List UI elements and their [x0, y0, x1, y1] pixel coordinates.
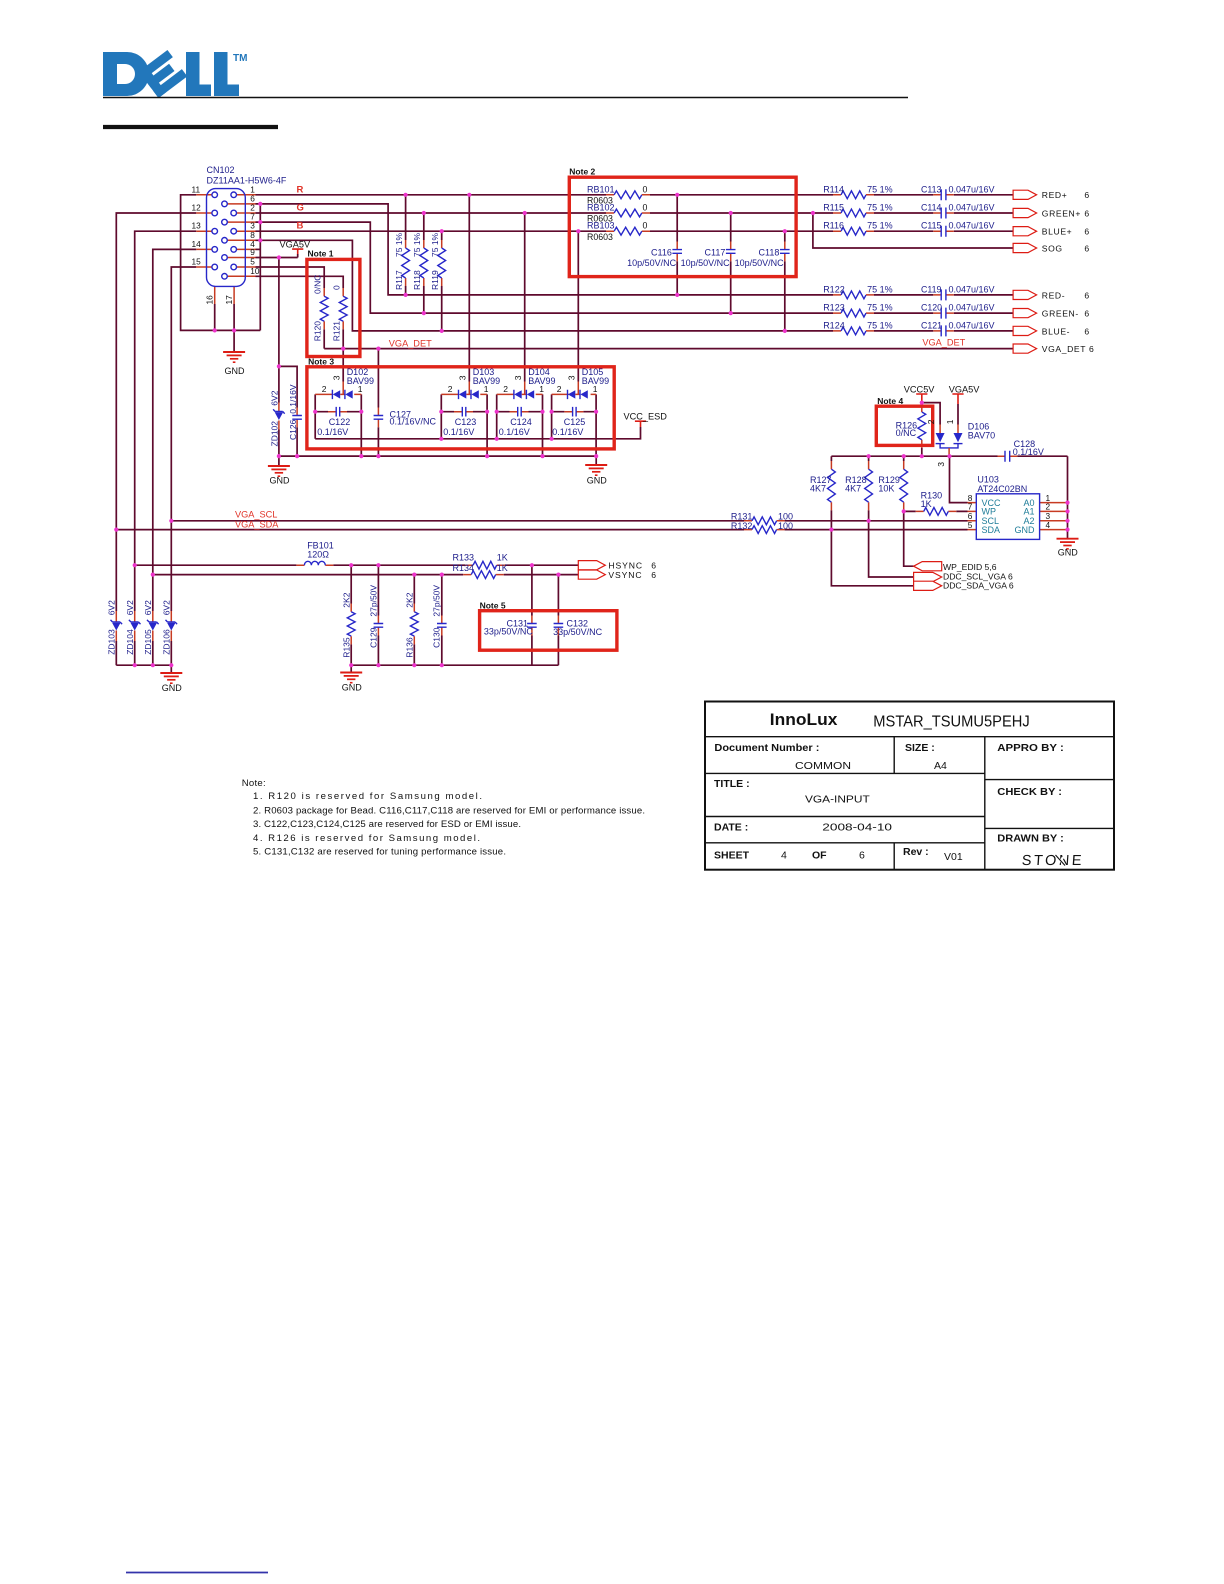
- svg-text:C119: C119: [921, 284, 941, 294]
- svg-text:COMMON: COMMON: [795, 760, 851, 772]
- resistor R127: [828, 469, 836, 502]
- svg-text:1K: 1K: [497, 553, 508, 563]
- junctions on HSYNC net: [133, 563, 534, 567]
- wire net VGA_SCL: [171, 520, 967, 522]
- svg-text:3: 3: [513, 375, 523, 380]
- resistor R114: [841, 191, 866, 199]
- zener ZD106: [166, 620, 178, 631]
- svg-text:10K: 10K: [878, 483, 894, 493]
- port DDC_SCL_VGA: [914, 572, 942, 581]
- Dell logo: [103, 50, 247, 98]
- junctions on VCC_ESD rail: [439, 437, 554, 441]
- svg-text:R132: R132: [731, 521, 753, 531]
- zener ZD102: [273, 409, 285, 420]
- svg-text:0: 0: [643, 203, 648, 213]
- resistor R131: [752, 517, 777, 525]
- port GREEN-: [1013, 309, 1037, 318]
- junctions on RED- GREEN- BLUE- return nets: [404, 293, 787, 333]
- svg-text:0.047u/16V: 0.047u/16V: [949, 303, 995, 313]
- wire D104 cluster: [497, 394, 543, 456]
- resistor R133: [473, 561, 497, 569]
- svg-text:75 1%: 75 1%: [867, 221, 893, 231]
- svg-text:R118: R118: [412, 270, 422, 290]
- svg-text:R120: R120: [313, 321, 323, 342]
- svg-text:3: 3: [331, 375, 341, 380]
- wire C127 vertical VGA_DET to gnd: [377, 349, 379, 457]
- svg-text:Note 1: Note 1: [308, 249, 334, 259]
- svg-text:13: 13: [192, 221, 202, 231]
- svg-text:GREEN-: GREEN-: [1042, 309, 1079, 319]
- zener ZD105: [147, 620, 159, 631]
- resistor R124: [841, 327, 866, 335]
- svg-text:RB103: RB103: [587, 221, 615, 231]
- svg-text:VGA_DET: VGA_DET: [922, 338, 965, 348]
- svg-text:2. R0603 package for Bead. C11: 2. R0603 package for Bead. C116,C117,C11…: [253, 805, 645, 816]
- power VGA5V pin9: [292, 249, 303, 254]
- svg-text:R134: R134: [453, 563, 475, 573]
- junctions on zener ground rail: [133, 663, 444, 667]
- wire R126 bottom: [921, 448, 923, 457]
- wire pin4 to GND column: [256, 248, 261, 250]
- connector pin16 pin17 stubs: [215, 286, 234, 304]
- svg-text:DZ11AA1-H5W6-4F: DZ11AA1-H5W6-4F: [207, 176, 287, 186]
- svg-text:0: 0: [643, 184, 648, 194]
- port VGA_DET: [1013, 344, 1037, 353]
- svg-text:RED-: RED-: [1042, 290, 1065, 300]
- capacitor C120: [941, 308, 946, 319]
- resistor R118: [420, 248, 428, 278]
- svg-text:33p/50V/NC: 33p/50V/NC: [484, 627, 534, 637]
- wire 5V rail right: [831, 456, 1067, 539]
- power VGA5V at D106: [952, 394, 963, 404]
- wire R down-feed to D103: [468, 195, 470, 382]
- svg-text:VCC5V: VCC5V: [904, 385, 936, 395]
- svg-text:75 1%: 75 1%: [867, 303, 893, 313]
- junctions on ESD cap row: [313, 410, 598, 414]
- svg-text:0.047u/16V: 0.047u/16V: [949, 320, 995, 330]
- svg-text:WP_EDID 5,6: WP_EDID 5,6: [943, 562, 997, 572]
- svg-text:R136: R136: [405, 637, 415, 658]
- resistor R136: [410, 612, 418, 636]
- svg-text:GND: GND: [342, 683, 363, 693]
- svg-text:GND: GND: [270, 475, 291, 485]
- svg-text:5. C131,C132 are reserved for: 5. C131,C132 are reserved for tuning per…: [253, 847, 506, 858]
- IC U103 AT24C02BN: [976, 494, 1039, 540]
- wire VGA5V rail down to ZD102: [278, 258, 280, 403]
- wire G down-feed to D104: [524, 213, 526, 382]
- resistor R120: [320, 296, 328, 321]
- port RED+: [1013, 190, 1037, 199]
- svg-text:10p/50V/NC: 10p/50V/NC: [735, 258, 785, 268]
- svg-text:1: 1: [358, 384, 363, 394]
- svg-text:DDC_SDA_VGA 6: DDC_SDA_VGA 6: [943, 580, 1014, 590]
- svg-text:6: 6: [1089, 344, 1094, 354]
- wire VCC5V node to D106: [922, 403, 958, 425]
- svg-text:6: 6: [1084, 309, 1089, 319]
- labels ZD103-ZD106 rotated: [107, 600, 117, 615]
- port GREEN+: [1013, 208, 1037, 217]
- svg-text:APPRO BY :: APPRO BY :: [997, 742, 1064, 754]
- capacitor C127: [374, 416, 384, 420]
- stubs R127 R128 R129 R126 R130: [831, 404, 956, 511]
- svg-text:2: 2: [557, 384, 562, 394]
- svg-text:VGA-INPUT: VGA-INPUT: [805, 794, 870, 806]
- wire R117 verticals: [405, 195, 407, 295]
- svg-text:0.047u/16V: 0.047u/16V: [949, 221, 995, 231]
- svg-text:C118: C118: [759, 247, 780, 257]
- note box Note 5: [480, 611, 617, 651]
- zener ZD104: [129, 620, 141, 631]
- resistor R122: [841, 291, 866, 299]
- svg-text:0.1/16V: 0.1/16V: [288, 384, 298, 414]
- svg-text:V01: V01: [944, 851, 963, 863]
- diode D105: [568, 390, 588, 399]
- wire U103 VCC feed: [950, 456, 968, 502]
- svg-text:C115: C115: [921, 221, 941, 231]
- stubs C128: [998, 455, 1018, 457]
- capacitor C119: [941, 289, 946, 300]
- wire R118 verticals: [423, 213, 425, 313]
- labels R135 R136 C129 C130 rotated: [341, 592, 351, 607]
- svg-text:CHECK BY :: CHECK BY :: [997, 786, 1062, 798]
- wire ZD102 bottom to gnd rail: [278, 430, 280, 457]
- wire net R (pin1 to RED+): [256, 194, 1014, 196]
- TITLE BLOCK: [705, 702, 1114, 870]
- svg-text:SIZE :: SIZE :: [905, 742, 935, 754]
- svg-text:0.1/16V: 0.1/16V: [499, 427, 530, 437]
- svg-text:9: 9: [250, 247, 255, 257]
- svg-text:4. R126 is reserved for Samsun: 4. R126 is reserved for Samsung model.: [253, 833, 480, 844]
- svg-text:5: 5: [968, 520, 973, 530]
- svg-text:0.047u/16V: 0.047u/16V: [949, 203, 995, 213]
- svg-text:3: 3: [458, 375, 468, 380]
- svg-text:C116: C116: [651, 247, 672, 257]
- svg-text:VCC_ESD: VCC_ESD: [624, 411, 668, 421]
- junctions on R G B video nets: [404, 193, 816, 234]
- capacitor C123: [462, 407, 466, 417]
- svg-text:0.1/16V: 0.1/16V: [1013, 447, 1044, 457]
- wire pin5 to R120: [256, 267, 325, 288]
- resistor R119: [438, 248, 446, 278]
- diode D104: [514, 390, 534, 399]
- labels R120 R121 rotated: [313, 275, 323, 294]
- wire R119 verticals: [441, 231, 443, 331]
- wire net SOG: [813, 213, 1013, 248]
- capacitor C126: [292, 416, 302, 420]
- svg-text:R117: R117: [394, 270, 404, 290]
- svg-text:14: 14: [192, 239, 202, 249]
- wire D102 cluster: [315, 394, 361, 456]
- svg-text:10p/50V/NC: 10p/50V/NC: [627, 258, 677, 268]
- wire net VSYNC: [153, 574, 579, 576]
- svg-text:100: 100: [778, 512, 793, 522]
- svg-text:CN102: CN102: [207, 165, 235, 175]
- svg-text:0.047u/16V: 0.047u/16V: [949, 184, 995, 194]
- resistor R132: [752, 526, 777, 534]
- svg-text:Note 3: Note 3: [308, 356, 334, 366]
- svg-text:0.1/16V/NC: 0.1/16V/NC: [390, 417, 437, 427]
- svg-text:2K2: 2K2: [341, 592, 351, 607]
- svg-text:ZD105: ZD105: [143, 629, 153, 655]
- svg-text:R116: R116: [823, 221, 844, 231]
- labels ZD102 C126 rotated: [269, 390, 279, 405]
- svg-text:ZD104: ZD104: [125, 629, 135, 655]
- svg-text:4K7: 4K7: [810, 483, 826, 493]
- svg-text:C122: C122: [329, 417, 351, 427]
- resistor R135: [347, 612, 355, 636]
- svg-text:U103: U103: [977, 474, 999, 484]
- capacitor C125: [573, 407, 577, 417]
- svg-text:BAV70: BAV70: [968, 431, 995, 441]
- capacitor C121: [941, 325, 946, 336]
- svg-text:HSYNC: HSYNC: [608, 561, 643, 571]
- svg-text:10: 10: [250, 266, 260, 276]
- wire pin7 return to GREEN-: [256, 222, 1014, 313]
- wire D103 cluster: [441, 394, 487, 456]
- wire net G (pin2 to GREEN+): [256, 212, 1014, 214]
- svg-text:75 1%: 75 1%: [430, 232, 440, 257]
- wire R128 / DDC_SCL: [869, 456, 914, 577]
- svg-text:3: 3: [567, 375, 577, 380]
- diode D103: [459, 390, 479, 399]
- header rule: [103, 97, 908, 99]
- svg-text:Note 5: Note 5: [480, 600, 506, 610]
- svg-text:6V2: 6V2: [162, 600, 172, 615]
- resistor R115: [841, 209, 866, 217]
- resistor RB103: [614, 227, 642, 235]
- svg-text:TITLE :: TITLE :: [714, 778, 750, 790]
- junction at VCC5V node: [920, 401, 924, 405]
- svg-text:R0603: R0603: [587, 232, 613, 242]
- svg-text:0.1/16V: 0.1/16V: [552, 427, 583, 437]
- connector CN102 body: [207, 189, 246, 287]
- svg-text:1K: 1K: [497, 563, 508, 573]
- svg-text:75 1%: 75 1%: [867, 284, 893, 294]
- svg-text:10p/50V/NC: 10p/50V/NC: [681, 258, 731, 268]
- svg-text:Note 2: Note 2: [569, 167, 595, 177]
- svg-text:0.047u/16V: 0.047u/16V: [949, 284, 995, 294]
- wire zener bottoms to gnd rail: [116, 641, 171, 665]
- svg-text:2: 2: [322, 384, 327, 394]
- svg-text:R114: R114: [823, 184, 844, 194]
- wire B down-feed to D105: [577, 231, 579, 381]
- stubs C122-C125: [328, 411, 583, 413]
- junctions on VSYNC net: [151, 573, 561, 577]
- note box Note 4: [876, 406, 932, 445]
- svg-text:6: 6: [1084, 243, 1089, 253]
- stubs R131 R132: [744, 521, 785, 530]
- svg-text:ZD103: ZD103: [107, 629, 117, 655]
- svg-text:27p/50V: 27p/50V: [432, 585, 442, 617]
- wire net HSYNC: [135, 564, 579, 566]
- svg-text:2: 2: [503, 384, 508, 394]
- svg-text:1. R120 is reserved for Samsun: 1. R120 is reserved for Samsung model.: [253, 791, 482, 802]
- svg-text:1: 1: [539, 384, 544, 394]
- zener ZD103: [111, 620, 123, 631]
- capacitor C117: [726, 250, 736, 254]
- resistor R123: [841, 309, 866, 317]
- resistor R130: [924, 508, 949, 516]
- capacitor C129: [374, 624, 384, 628]
- svg-text:R123: R123: [823, 303, 845, 313]
- svg-text:6: 6: [1084, 326, 1089, 336]
- svg-text:2: 2: [926, 419, 936, 424]
- svg-text:6V2: 6V2: [107, 600, 117, 615]
- svg-text:R131: R131: [731, 512, 753, 522]
- svg-text:GND: GND: [162, 683, 183, 693]
- svg-text:STONE: STONE: [1021, 853, 1084, 869]
- ground under U103: [1057, 539, 1079, 549]
- wire gnd rail under zeners: [116, 665, 171, 673]
- ground under D105: [585, 465, 607, 475]
- svg-text:1: 1: [593, 384, 598, 394]
- svg-text:4: 4: [781, 850, 787, 862]
- svg-text:100: 100: [778, 521, 793, 531]
- connector CN102 right pin stubs: [245, 195, 255, 276]
- svg-text:6: 6: [1084, 190, 1089, 200]
- resistor R116: [841, 227, 866, 235]
- stubs R117 R118 R119: [406, 240, 442, 286]
- port WP_EDID: [914, 562, 942, 571]
- svg-text:R121: R121: [332, 321, 342, 342]
- svg-text:R133: R133: [453, 553, 475, 563]
- wire C132 vertical: [557, 575, 559, 666]
- resistor R128: [865, 469, 873, 502]
- NOTES: [242, 778, 645, 858]
- ground under connector: [223, 352, 245, 362]
- svg-text:3: 3: [936, 462, 946, 467]
- stubs ZD103-ZD106: [116, 611, 171, 641]
- wire C116 vertical: [676, 195, 678, 295]
- svg-text:GND: GND: [1015, 525, 1036, 535]
- svg-text:A4: A4: [934, 760, 947, 772]
- svg-text:VGA_DET: VGA_DET: [1042, 344, 1086, 354]
- wire pin8 return to BLUE-: [256, 240, 1014, 331]
- labels R117 R118 R119 rotated: [394, 232, 404, 257]
- svg-text:4: 4: [1046, 520, 1051, 530]
- svg-text:VGA_SCL: VGA_SCL: [235, 510, 277, 520]
- svg-text:75 1%: 75 1%: [867, 320, 893, 330]
- diode D102: [332, 390, 352, 399]
- svg-text:InnoLux: InnoLux: [770, 711, 838, 729]
- svg-text:GND: GND: [225, 366, 246, 376]
- wire C126 branch: [279, 366, 297, 456]
- ground under zeners: [160, 673, 182, 683]
- junctions on 5V rail: [867, 454, 952, 458]
- svg-text:VGA5V: VGA5V: [280, 240, 312, 250]
- svg-text:ZD106: ZD106: [162, 629, 172, 655]
- svg-text:VGA_DET: VGA_DET: [389, 338, 432, 348]
- svg-text:GREEN+: GREEN+: [1042, 208, 1081, 218]
- wire pin6 return to RED-: [256, 204, 1014, 295]
- stubs D102-D105 clusters: [315, 382, 361, 395]
- svg-text:DATE :: DATE :: [714, 822, 748, 834]
- svg-text:VSYNC: VSYNC: [608, 570, 642, 580]
- port RED-: [1013, 290, 1037, 299]
- ferrite bead FB101: [304, 561, 325, 565]
- resistor R129: [900, 469, 908, 502]
- svg-text:SDA: SDA: [982, 525, 1001, 535]
- wire pin15 / VGA_SCL vertical to ZD106: [171, 267, 196, 611]
- svg-text:0.1/16V: 0.1/16V: [443, 427, 474, 437]
- svg-text:AT24C02BN: AT24C02BN: [977, 484, 1027, 494]
- svg-text:3. C122,C123,C124,C125 are res: 3. C122,C123,C124,C125 are reserved for …: [253, 819, 521, 830]
- svg-text:Note:: Note:: [242, 778, 266, 789]
- port SOG: [1013, 243, 1037, 252]
- svg-text:SHEET: SHEET: [714, 850, 750, 862]
- capacitor C115: [941, 226, 946, 237]
- svg-text:1: 1: [484, 384, 489, 394]
- wire R120 bottom: [323, 329, 325, 348]
- svg-text:C121: C121: [921, 320, 942, 330]
- resistor R126: [918, 412, 926, 440]
- junction on VGA5V pin9 node: [277, 255, 281, 368]
- stubs C116 C117 C118: [677, 242, 785, 262]
- capacitor C131: [527, 624, 537, 628]
- svg-text:R: R: [297, 184, 304, 195]
- wire C130 vertical: [441, 575, 443, 666]
- connector CN102 inner pin lines: [207, 195, 246, 276]
- wire gnd rail of ESD clusters: [279, 456, 596, 466]
- power VCC_ESD: [635, 421, 646, 427]
- wire VCC_ESD rail: [315, 427, 640, 439]
- svg-text:R135: R135: [341, 637, 351, 658]
- svg-text:15: 15: [192, 257, 202, 267]
- capacitor C122: [336, 407, 340, 417]
- wire R121 bottom / D102 pin3: [342, 329, 344, 381]
- svg-text:BLUE-: BLUE-: [1042, 326, 1070, 336]
- port DDC_SDA_VGA: [914, 581, 942, 590]
- wire net B (pin3 to BLUE+): [256, 230, 1014, 232]
- wire D106 join: [940, 444, 958, 448]
- svg-text:GND: GND: [1058, 547, 1079, 557]
- capacitor C118: [780, 250, 790, 254]
- connector CN102 left pin stubs: [196, 195, 206, 267]
- svg-text:RED+: RED+: [1042, 190, 1068, 200]
- resistor R117: [402, 248, 410, 278]
- svg-text:C125: C125: [564, 417, 586, 427]
- ground under ZD102: [268, 466, 290, 476]
- resistor RB102: [614, 209, 642, 217]
- junctions on VGA_DET net: [341, 347, 380, 351]
- wire R127 / DDC_SDA: [831, 456, 913, 586]
- svg-text:2K2: 2K2: [405, 592, 415, 607]
- junctions on ESD ground rail: [277, 454, 599, 458]
- resistor R121: [339, 296, 347, 321]
- connector CN102 pin holes: [212, 192, 237, 279]
- wire C118 vertical: [784, 231, 786, 331]
- svg-text:Rev :: Rev :: [903, 846, 929, 858]
- svg-text:6: 6: [1084, 290, 1089, 300]
- svg-text:75 1%: 75 1%: [867, 184, 893, 194]
- wire pin14 / VSYNC vertical to ZD105: [153, 249, 197, 611]
- svg-text:G: G: [297, 203, 304, 214]
- svg-text:C113: C113: [921, 184, 941, 194]
- capacitor C116: [672, 250, 682, 254]
- svg-text:C114: C114: [921, 203, 941, 213]
- svg-text:TM: TM: [233, 53, 247, 64]
- svg-text:C123: C123: [455, 417, 477, 427]
- wire sync gnd rail: [351, 665, 558, 672]
- svg-text:GND: GND: [587, 475, 608, 485]
- svg-text:4K7: 4K7: [845, 483, 861, 493]
- thick black bar: [103, 125, 278, 129]
- svg-text:0/NC: 0/NC: [896, 428, 917, 438]
- svg-text:MSTAR_TSUMU5PEHJ: MSTAR_TSUMU5PEHJ: [873, 714, 1029, 731]
- svg-text:VGA_SDA: VGA_SDA: [235, 519, 279, 529]
- capacitor C128: [1005, 451, 1010, 462]
- svg-text:0: 0: [643, 221, 648, 231]
